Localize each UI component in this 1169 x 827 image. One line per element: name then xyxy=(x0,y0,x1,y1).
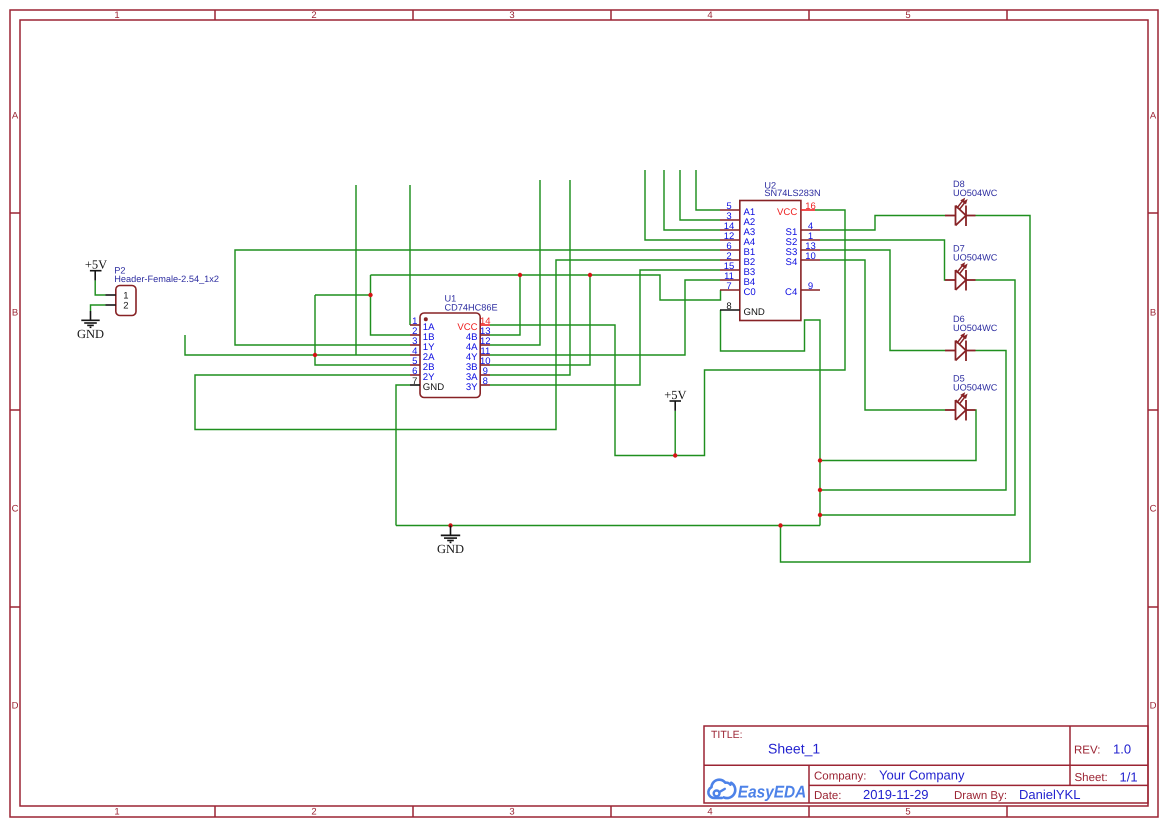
junction GND vertical / D5 branch xyxy=(818,458,822,462)
junction y275 bus / 4B xyxy=(518,273,522,277)
U2 pin 11 (B4) xyxy=(720,279,740,281)
svg-text:GND: GND xyxy=(77,327,104,341)
wire net +5V: P2 pin1 to +5V flag xyxy=(95,280,105,295)
U1 pin 9 (3A) xyxy=(480,374,490,376)
U1 pin 4 (2A) xyxy=(410,354,420,356)
LED D6 UO504WC xyxy=(945,314,998,361)
svg-text:7: 7 xyxy=(412,376,417,387)
svg-text:Date:: Date: xyxy=(814,790,842,802)
U2 pin 3 (A2) xyxy=(720,219,740,221)
svg-text:1.0: 1.0 xyxy=(1113,742,1131,757)
svg-text:3: 3 xyxy=(509,807,514,818)
svg-text:7: 7 xyxy=(726,281,731,292)
wire net A1 stub to U2 A1 xyxy=(696,170,720,210)
U1 pin 13 (4B) xyxy=(480,334,490,336)
svg-text:EasyEDA: EasyEDA xyxy=(738,783,807,802)
U2 pin 9 (C4) xyxy=(801,289,820,291)
wire net S4 to D5 anode xyxy=(820,260,945,410)
svg-text:Sheet_1: Sheet_1 xyxy=(768,740,820,756)
svg-text:GND: GND xyxy=(744,307,765,318)
P2 pin 2 xyxy=(106,304,116,306)
U2 pin 4 (S1) xyxy=(801,229,820,231)
junction GND rail / D8 branch xyxy=(778,523,782,527)
svg-text:8: 8 xyxy=(726,301,731,312)
svg-text:16: 16 xyxy=(805,201,816,212)
svg-text:D: D xyxy=(1150,700,1157,711)
wire net A3 stub to U2 A3 xyxy=(664,170,720,230)
junction GND flag on rail xyxy=(448,523,452,527)
svg-text:DanielYKL: DanielYKL xyxy=(1019,787,1080,802)
svg-text:1/1: 1/1 xyxy=(1120,769,1138,784)
svg-text:Drawn By:: Drawn By: xyxy=(954,790,1007,802)
U2 pin 6 (B1) xyxy=(720,249,740,251)
junction +5V rail xyxy=(673,453,677,457)
wire net GND: U1 pin7 down to GND rail xyxy=(396,385,410,526)
connector P2 Header-Female-2.54_1x2 xyxy=(106,265,220,315)
svg-text:VCC: VCC xyxy=(777,207,797,218)
LED D5 UO504WC xyxy=(945,374,998,421)
wire net A2 stub to U2 A2 xyxy=(680,170,720,220)
svg-text:1: 1 xyxy=(114,807,119,818)
svg-text:REV:: REV: xyxy=(1074,745,1100,757)
U1 pin 6 (2Y) xyxy=(410,374,420,376)
LED D7 UO504WC xyxy=(945,244,998,291)
U2 pin 5 (A1) xyxy=(720,209,740,211)
wire net S2 to D7 anode xyxy=(820,240,945,280)
LED D8 UO504WC xyxy=(945,179,998,226)
svg-text:Your Company: Your Company xyxy=(879,768,965,783)
junction y275 bus / 3B xyxy=(588,273,592,277)
wire net 2A: left stub and run to U1 pin4 2A xyxy=(185,335,410,355)
svg-text:C: C xyxy=(12,503,19,514)
wire net 3Y to U2 B3 xyxy=(490,270,720,385)
svg-text:TITLE:: TITLE: xyxy=(711,729,743,741)
svg-text:3: 3 xyxy=(509,10,514,21)
U1 pin 1 marker xyxy=(424,317,428,321)
svg-text:C: C xyxy=(1150,503,1157,514)
svg-text:8: 8 xyxy=(483,376,488,387)
U2 pin 2 (B2) xyxy=(720,259,740,261)
ground GND mid-sheet xyxy=(437,526,464,557)
U2 pin 1 (S2) xyxy=(801,239,820,241)
svg-text:3Y: 3Y xyxy=(466,382,478,393)
svg-text:+5V: +5V xyxy=(85,258,107,272)
svg-text:C4: C4 xyxy=(785,287,798,298)
svg-text:UO504WC: UO504WC xyxy=(953,383,998,393)
wire net GND: main horizontal rail xyxy=(396,525,820,527)
op IC U1 CD74HC86E quad XOR xyxy=(410,293,498,397)
svg-text:2: 2 xyxy=(311,807,316,818)
svg-text:9: 9 xyxy=(808,281,813,292)
svg-text:2019-11-29: 2019-11-29 xyxy=(863,787,929,802)
svg-text:UO504WC: UO504WC xyxy=(953,253,998,263)
svg-text:Company:: Company: xyxy=(814,770,866,782)
U1 pin 2 (1B) xyxy=(410,334,420,336)
U1 pin 7 (GND) xyxy=(410,384,420,386)
junction GND vertical / D6 branch xyxy=(818,488,822,492)
svg-text:10: 10 xyxy=(805,251,816,262)
IC U2 SN74LS283N 4-bit adder xyxy=(720,180,821,320)
wire net A2: stub down to 2A row xyxy=(355,185,357,355)
wire net GND: P2 pin2 to GND flag xyxy=(91,305,106,311)
U1 pin 1 (1A) xyxy=(410,324,420,326)
wire net S3 to D6 anode xyxy=(820,250,945,351)
wire net +5V: flag drop xyxy=(674,411,676,456)
wire net GND: U2 pin8 to GND rail xyxy=(721,310,821,526)
U2 pin 16 (VCC) xyxy=(801,209,815,211)
power flag +5V at P2 xyxy=(85,258,107,281)
U2 pin 10 (S4) xyxy=(801,259,820,261)
svg-text:1: 1 xyxy=(114,10,119,21)
svg-text:Sheet:: Sheet: xyxy=(1075,772,1108,784)
svg-text:4: 4 xyxy=(707,807,712,818)
junction net 2A / 2B xyxy=(313,353,317,357)
U1 pin 3 (1Y) xyxy=(410,344,420,346)
svg-text:2: 2 xyxy=(123,301,128,312)
svg-text:B: B xyxy=(1150,307,1156,318)
wire net 2B: from y295 down to U1 pin5 2B xyxy=(315,295,410,365)
svg-text:A: A xyxy=(1150,110,1157,121)
U1 pin 10 (3B) xyxy=(480,364,490,366)
wire link at y295 between x315 and x370.5 xyxy=(315,294,371,296)
svg-text:2: 2 xyxy=(311,10,316,21)
svg-text:5: 5 xyxy=(905,10,910,21)
wire net 2Y to U2 B2 xyxy=(195,260,720,430)
svg-text:D: D xyxy=(12,700,19,711)
U1 pin 14 (VCC) xyxy=(480,324,490,326)
wire net 3A: U1 pin9 up to stub xyxy=(490,180,570,375)
wire net 4A: U1 pin12 up to stub xyxy=(490,180,540,345)
U2 pin 8 (GND) xyxy=(720,309,740,311)
power flag +5V mid-sheet xyxy=(664,388,686,411)
U1 pin 8 (3Y) xyxy=(480,384,490,386)
wire net 1B: vertical from xor-out bus to U1 pin2 1B xyxy=(371,275,411,335)
wire net A4 stub to U2 A4 xyxy=(645,170,720,240)
U2 pin 14 (A3) xyxy=(720,229,740,231)
svg-text:S4: S4 xyxy=(786,257,798,268)
U1 pin 12 (4A) xyxy=(480,344,490,346)
wire net +5V: U1 VCC to +5V flag and U2 VCC xyxy=(490,210,845,456)
wire net 1Y to U2 B1 xyxy=(235,250,720,345)
U2 pin 15 (B3) xyxy=(720,269,740,271)
U2 pin 7 (C0) xyxy=(720,289,740,291)
wire net 4B: U1 pin13 up to y275 bus xyxy=(490,275,520,335)
wire net GND: branch to D8 cathode xyxy=(781,216,1031,563)
svg-text:A: A xyxy=(12,110,19,121)
wire net 4Y to U2 B4 xyxy=(490,280,720,355)
ground GND at P2 xyxy=(77,311,104,341)
P2 pin 1 xyxy=(106,294,116,296)
svg-text:Header-Female-2.54_1x2: Header-Female-2.54_1x2 xyxy=(114,274,219,284)
U2 pin 13 (S3) xyxy=(801,249,820,251)
svg-text:B: B xyxy=(12,307,18,318)
svg-text:CD74HC86E: CD74HC86E xyxy=(445,303,498,313)
svg-text:GND: GND xyxy=(423,382,444,393)
junction net 1B / y295 link xyxy=(368,293,372,297)
U1 pin 11 (4Y) xyxy=(480,354,490,356)
svg-text:GND: GND xyxy=(437,542,464,556)
wire net GND: D7 cathode branch xyxy=(820,280,1015,515)
svg-text:UO504WC: UO504WC xyxy=(953,188,998,198)
svg-text:4: 4 xyxy=(707,10,712,21)
junction GND vertical / D7 branch xyxy=(818,513,822,517)
wire net xor-out bus y275 to U2 C0 xyxy=(371,275,721,300)
wire net GND: D5 cathode branch xyxy=(820,410,976,461)
wire net A1: stub to U1 pin1 1A xyxy=(409,185,411,325)
U1 pin 5 (2B) xyxy=(410,364,420,366)
wire net S1 to D8 anode xyxy=(820,216,945,231)
svg-text:C0: C0 xyxy=(744,287,756,298)
wire net 3B: U1 pin10 up to y275 bus xyxy=(490,275,590,365)
U2 pin 12 (A4) xyxy=(720,239,740,241)
svg-text:5: 5 xyxy=(905,807,910,818)
svg-text:+5V: +5V xyxy=(664,388,686,402)
svg-text:SN74LS283N: SN74LS283N xyxy=(764,188,820,198)
wire net GND: D6 cathode branch xyxy=(820,351,1006,491)
svg-text:UO504WC: UO504WC xyxy=(953,323,998,333)
